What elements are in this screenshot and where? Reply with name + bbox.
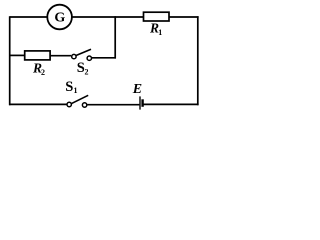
wire inner branch vertical: [114, 16, 116, 58]
wire top rail right segment: [169, 16, 199, 18]
svg-text:1: 1: [158, 28, 162, 37]
wire bottom rail middle segment: [87, 104, 139, 106]
wire left rail: [9, 16, 11, 105]
label S1: [65, 79, 77, 95]
svg-text:E: E: [132, 82, 142, 97]
galvanometer G: [47, 5, 72, 30]
svg-text:S: S: [65, 79, 73, 95]
switch S2: [72, 49, 92, 60]
label S2: [77, 60, 89, 77]
svg-text:2: 2: [85, 68, 89, 77]
wire right rail: [197, 16, 199, 105]
resistor R2: [25, 51, 50, 60]
switch S1: [67, 95, 88, 107]
wire top rail left segment: [10, 16, 48, 18]
label R2: [32, 61, 45, 77]
wire inner branch middle segment: [50, 55, 71, 57]
wire inner branch right segment: [92, 57, 116, 59]
wire bottom rail left segment: [9, 103, 67, 105]
resistor R1: [144, 12, 170, 21]
wire bottom rail right segment: [143, 103, 198, 105]
svg-text:G: G: [54, 11, 65, 26]
label R1: [149, 21, 162, 37]
battery E: [140, 96, 143, 109]
wire inner branch left segment: [10, 54, 25, 56]
svg-text:2: 2: [41, 68, 45, 77]
svg-text:1: 1: [74, 86, 78, 95]
wire top rail middle segment: [72, 16, 144, 18]
